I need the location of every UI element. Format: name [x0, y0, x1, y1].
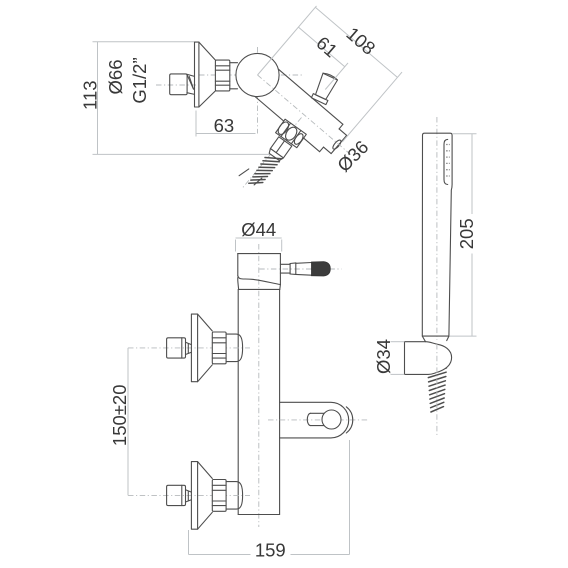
lever arm (front view): [280, 263, 311, 276]
centerline lever (front view): [259, 268, 341, 270]
centerline body horizontal (side view): [199, 74, 302, 76]
svg-text:159: 159: [255, 540, 286, 561]
dimension Ø44: [236, 238, 282, 252]
outlet nipple (front view): [307, 410, 341, 429]
centerline column vertical (front view): [258, 244, 260, 527]
svg-text:Ø34: Ø34: [373, 339, 394, 374]
shower outlet boss (front view): [280, 402, 353, 438]
wall bracket holder: [405, 336, 452, 374]
centerline inlet (side view): [156, 84, 196, 86]
hand shower hose spiral top: [428, 368, 446, 412]
upper inlet union + escutcheon (front view): [128, 314, 250, 382]
centerline hand shower vertical: [436, 117, 438, 340]
hand shower handle: [422, 133, 452, 336]
dimension 150±20: [127, 348, 129, 496]
svg-text:205: 205: [456, 218, 477, 249]
svg-text:113: 113: [80, 80, 101, 110]
spray face strip: [444, 139, 450, 184]
dimension 113 extension lines and dim line: [93, 42, 273, 155]
hose break ticks (side view): [239, 169, 262, 185]
top cap (front view): [238, 254, 281, 290]
lower inlet union + escutcheon (front view): [128, 462, 250, 530]
centerline outlet (front view): [268, 419, 369, 421]
body tube (side view, diagonal): [253, 68, 346, 154]
neck cylinder collar-to-sphere (side view): [230, 63, 238, 89]
lever grip dark (front view): [312, 262, 331, 276]
hose spiral (side view): [249, 158, 282, 184]
centerline hose bottom: [436, 344, 438, 435]
escutcheon flange (side view): [195, 42, 216, 107]
dimension 61 (diagonal): [258, 6, 349, 90]
centerline hose axis (side view): [242, 118, 302, 189]
svg-text:Ø44: Ø44: [241, 219, 276, 240]
dimension 159: [189, 440, 350, 555]
ball joint sphere (side view): [236, 53, 279, 96]
collar hex nut (side view): [215, 60, 229, 91]
svg-text:Ø66: Ø66: [105, 60, 126, 95]
centerline body axis diagonal (side view): [258, 75, 353, 156]
hose hex nut (side view): [276, 119, 307, 148]
diverter knob (side view): [311, 73, 337, 104]
svg-text:150±20: 150±20: [109, 384, 130, 446]
hose ferrule cone (side view): [269, 149, 283, 161]
dimension 205: [449, 134, 477, 336]
outlet window on end cap (side view): [332, 139, 343, 151]
svg-text:63: 63: [214, 115, 235, 136]
dimension 63: [196, 111, 256, 137]
centerline sphere vertical (side view): [257, 47, 259, 134]
column body (front view): [238, 289, 279, 514]
dimension Ø34: [391, 342, 405, 375]
wall union G1/2 (side view): [170, 74, 195, 95]
dimension 108 (diagonal): [315, 7, 402, 142]
hose coupling cylinder (side view): [270, 137, 291, 158]
svg-text:G1/2”: G1/2”: [129, 57, 150, 103]
